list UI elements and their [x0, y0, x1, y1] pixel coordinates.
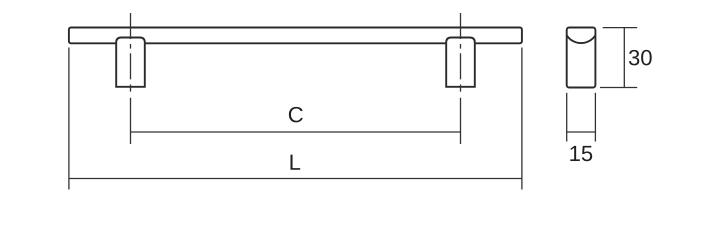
handle bar (front view): [69, 28, 522, 44]
dimension line 30: [623, 28, 625, 88]
extension line 15 right: [594, 93, 596, 142]
extension tick 30 top: [603, 27, 638, 29]
post right: [446, 38, 475, 87]
label 30: [629, 50, 652, 66]
extension line L right: [521, 48, 523, 190]
dimension line L: [69, 178, 522, 180]
bar saddle arc (side view): [567, 35, 596, 43]
post left: [116, 38, 145, 87]
centerline left post: [130, 13, 132, 92]
label 15: [570, 146, 592, 161]
dimension line C: [131, 131, 461, 133]
label L: [290, 155, 300, 170]
extension line L left: [68, 48, 70, 190]
extension tick 30 bottom: [600, 87, 637, 89]
dimension line 15: [567, 131, 596, 133]
centerline right post: [460, 13, 462, 92]
post body (side view): [567, 28, 596, 88]
extension line C left: [130, 98, 132, 144]
extension line 15 left: [566, 93, 568, 142]
label C: [289, 107, 303, 123]
extension line C right: [460, 98, 462, 144]
